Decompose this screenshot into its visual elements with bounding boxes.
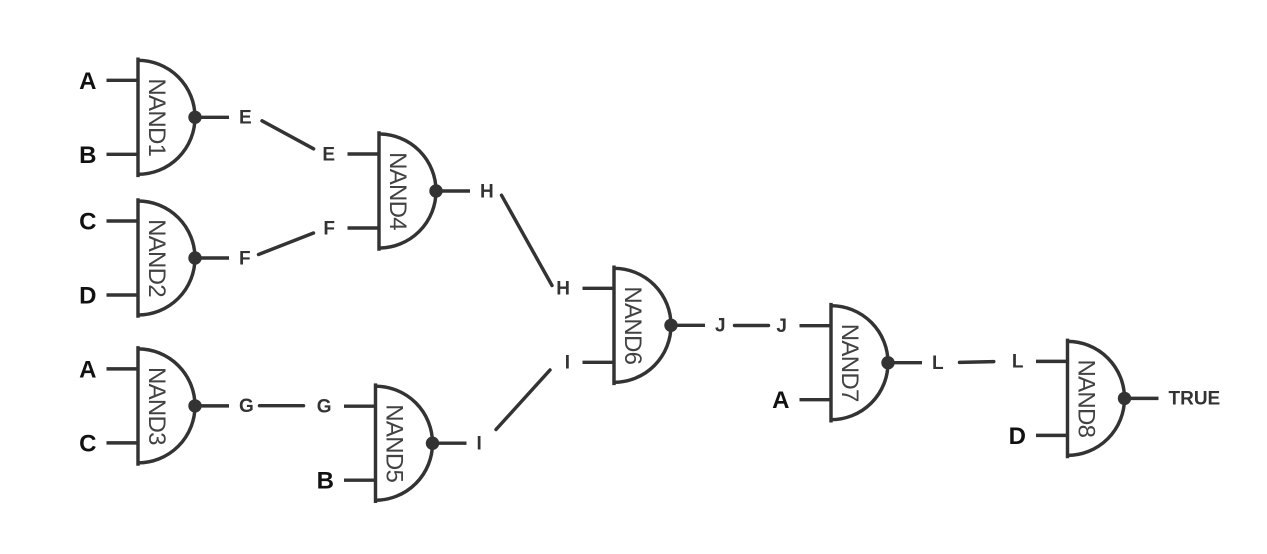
svg-text:C: C [79, 209, 96, 236]
svg-text:J: J [715, 316, 726, 337]
svg-text:D: D [79, 283, 96, 310]
svg-text:NAND8: NAND8 [1073, 359, 1100, 437]
svg-text:NAND6: NAND6 [619, 286, 646, 364]
svg-text:C: C [79, 430, 96, 457]
svg-text:J: J [776, 316, 787, 337]
svg-text:H: H [556, 279, 570, 300]
svg-text:NAND2: NAND2 [143, 219, 170, 297]
svg-text:TRUE: TRUE [1169, 389, 1221, 410]
svg-text:E: E [239, 108, 252, 129]
svg-text:NAND3: NAND3 [143, 367, 170, 445]
svg-text:L: L [932, 353, 944, 374]
svg-text:NAND1: NAND1 [143, 78, 170, 156]
svg-text:A: A [79, 356, 96, 383]
svg-text:NAND4: NAND4 [384, 152, 411, 230]
svg-text:E: E [322, 144, 335, 165]
svg-text:D: D [1009, 423, 1026, 450]
svg-text:G: G [239, 396, 254, 417]
svg-text:I: I [477, 434, 482, 455]
svg-text:B: B [79, 142, 96, 169]
svg-text:NAND7: NAND7 [836, 324, 863, 402]
svg-text:F: F [323, 218, 335, 239]
svg-text:H: H [480, 181, 494, 202]
svg-text:I: I [565, 353, 570, 374]
svg-text:A: A [772, 387, 789, 414]
svg-text:G: G [317, 397, 332, 418]
svg-text:L: L [1012, 352, 1024, 373]
svg-text:F: F [239, 248, 251, 269]
svg-text:B: B [317, 468, 334, 495]
svg-text:NAND5: NAND5 [381, 404, 408, 482]
svg-text:A: A [79, 68, 96, 95]
